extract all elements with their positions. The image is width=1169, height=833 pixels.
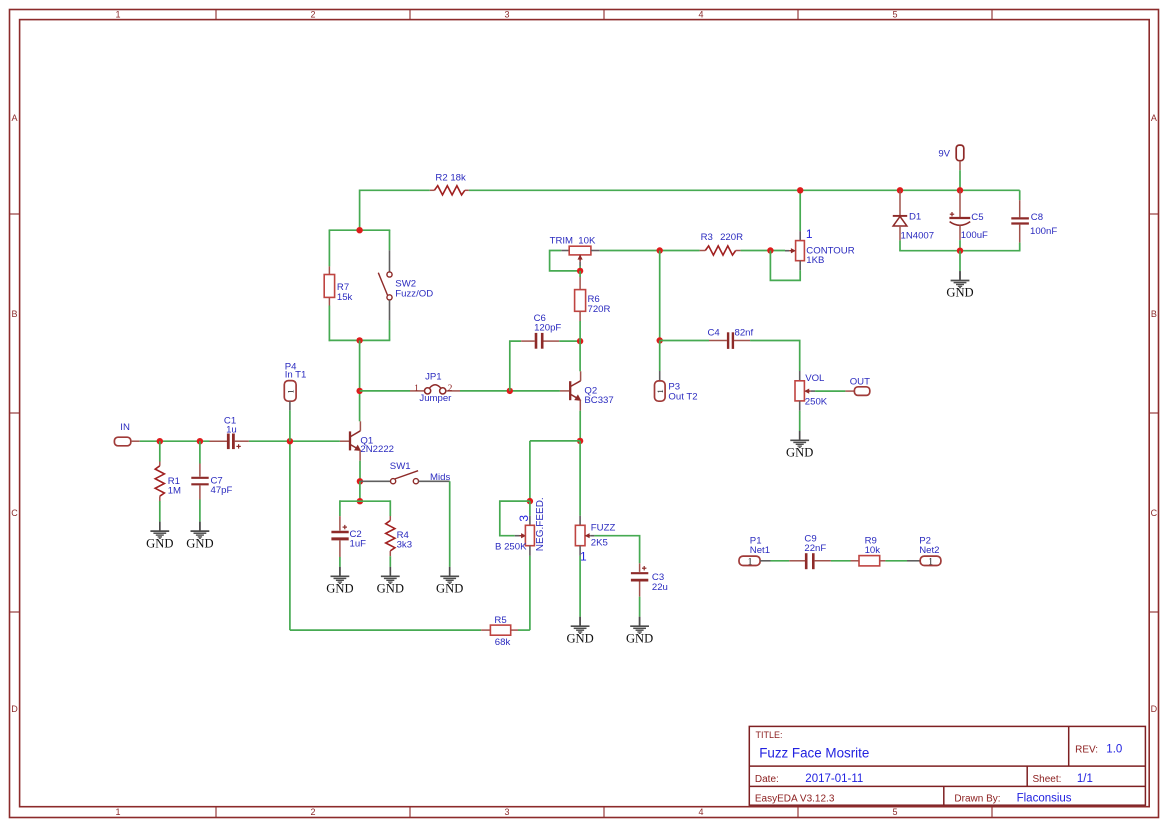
svg-text:BC337: BC337 bbox=[584, 395, 613, 406]
svg-text:120pF: 120pF bbox=[534, 322, 561, 333]
wire bbox=[579, 321, 581, 341]
wire bbox=[529, 556, 531, 630]
svg-text:D: D bbox=[1151, 704, 1158, 714]
svg-text:In T1: In T1 bbox=[285, 369, 307, 380]
svg-text:1: 1 bbox=[115, 10, 120, 20]
svg-text:Fuzz Face Mosrite: Fuzz Face Mosrite bbox=[759, 746, 869, 761]
svg-text:5: 5 bbox=[892, 10, 897, 20]
diode D1 1N4007 bbox=[893, 190, 934, 241]
wire bbox=[510, 390, 560, 392]
resistor R9 bbox=[851, 535, 886, 566]
svg-text:GND: GND bbox=[566, 631, 593, 645]
svg-text:TITLE:: TITLE: bbox=[756, 730, 783, 740]
wire bbox=[290, 629, 481, 631]
svg-text:GND: GND bbox=[186, 536, 213, 550]
svg-text:3: 3 bbox=[517, 515, 531, 522]
svg-text:720R: 720R bbox=[588, 304, 611, 315]
junction bbox=[577, 338, 583, 344]
junction bbox=[767, 247, 773, 253]
wire bbox=[660, 250, 700, 252]
wire bbox=[329, 229, 391, 231]
wire bbox=[289, 410, 291, 441]
svg-text:R5: R5 bbox=[494, 615, 506, 626]
svg-text:Sheet:: Sheet: bbox=[1033, 774, 1062, 785]
junction bbox=[577, 438, 583, 444]
svg-text:R2 18k: R2 18k bbox=[435, 172, 466, 183]
svg-text:3k3: 3k3 bbox=[397, 540, 412, 551]
svg-text:2K5: 2K5 bbox=[591, 538, 608, 549]
svg-text:22nF: 22nF bbox=[804, 543, 826, 554]
svg-text:GND: GND bbox=[377, 582, 404, 596]
junction bbox=[197, 438, 203, 444]
wire bbox=[579, 411, 581, 441]
wire bbox=[530, 440, 580, 442]
resistor R4 bbox=[386, 500, 412, 556]
junction bbox=[577, 268, 583, 274]
svg-text:REV:: REV: bbox=[1075, 745, 1098, 756]
svg-text:GND: GND bbox=[146, 536, 173, 550]
resistor R1 bbox=[155, 441, 181, 501]
wire bbox=[328, 230, 330, 266]
wire bbox=[449, 481, 451, 567]
svg-text:10K: 10K bbox=[578, 236, 596, 247]
svg-text:Net2: Net2 bbox=[919, 545, 939, 556]
title block bbox=[749, 726, 1145, 805]
svg-text:B 250K: B 250K bbox=[495, 541, 527, 552]
wire bbox=[550, 251, 581, 271]
svg-text:1: 1 bbox=[928, 557, 933, 567]
svg-text:2: 2 bbox=[310, 807, 315, 817]
svg-text:A: A bbox=[1151, 113, 1157, 123]
capacitor C3 bbox=[631, 563, 668, 596]
junction bbox=[157, 438, 163, 444]
capacitor C5 bbox=[949, 190, 988, 241]
svg-text:C4: C4 bbox=[708, 327, 721, 338]
svg-text:220R: 220R bbox=[720, 232, 743, 243]
svg-text:22u: 22u bbox=[652, 582, 668, 593]
wire bbox=[518, 629, 530, 631]
switch SW1 Mids bbox=[360, 461, 451, 484]
svg-text:C: C bbox=[1151, 508, 1158, 518]
wire bbox=[359, 391, 361, 421]
junction bbox=[507, 388, 513, 394]
junction bbox=[797, 187, 803, 193]
wire bbox=[199, 500, 201, 522]
svg-text:C8: C8 bbox=[1031, 212, 1043, 223]
svg-text:Jumper: Jumper bbox=[419, 393, 452, 404]
wire bbox=[579, 271, 581, 277]
junction bbox=[897, 187, 903, 193]
wire bbox=[329, 339, 391, 341]
svg-text:1: 1 bbox=[748, 557, 753, 567]
wire bbox=[359, 461, 361, 482]
svg-text:Date:: Date: bbox=[755, 774, 779, 785]
resistor R3 bbox=[700, 232, 744, 255]
wire bbox=[770, 251, 800, 281]
resistor R6 bbox=[575, 271, 611, 321]
wire bbox=[771, 560, 790, 562]
wire bbox=[750, 341, 800, 372]
ground bbox=[626, 617, 653, 646]
svg-text:1.0: 1.0 bbox=[1106, 744, 1122, 756]
wire bbox=[199, 441, 201, 463]
svg-text:9V: 9V bbox=[938, 149, 950, 160]
svg-text:GND: GND bbox=[786, 446, 813, 460]
transistor Q1 bbox=[340, 421, 394, 460]
junction bbox=[657, 337, 663, 343]
svg-text:1uF: 1uF bbox=[350, 538, 367, 549]
potentiometer CONTOUR 1KB bbox=[770, 190, 854, 280]
svg-text:250K: 250K bbox=[805, 396, 828, 407]
svg-text:SW1: SW1 bbox=[390, 461, 411, 472]
svg-text:1: 1 bbox=[806, 227, 813, 241]
capacitor C2 bbox=[331, 500, 366, 557]
svg-text:10k: 10k bbox=[865, 545, 881, 556]
svg-text:C: C bbox=[11, 508, 18, 518]
wire bbox=[659, 251, 661, 341]
svg-text:1u: 1u bbox=[226, 424, 237, 435]
junction bbox=[287, 438, 293, 444]
svg-text:4: 4 bbox=[698, 807, 703, 817]
port P2 Net2 bbox=[907, 535, 941, 567]
svg-text:3: 3 bbox=[504, 807, 509, 817]
junction bbox=[356, 227, 362, 233]
wire bbox=[579, 341, 581, 371]
potentiometer FUZZ 2K5 bbox=[575, 516, 615, 564]
svg-text:Fuzz/OD: Fuzz/OD bbox=[395, 289, 433, 300]
wire bbox=[799, 411, 801, 431]
wire bbox=[510, 341, 521, 391]
wire bbox=[579, 441, 581, 516]
svg-text:100nF: 100nF bbox=[1030, 226, 1057, 237]
svg-text:GND: GND bbox=[436, 582, 463, 596]
svg-text:4: 4 bbox=[698, 10, 703, 20]
wire bbox=[389, 500, 391, 516]
junction bbox=[356, 337, 362, 343]
wire bbox=[460, 390, 510, 392]
svg-text:1N4007: 1N4007 bbox=[901, 231, 935, 242]
svg-text:B: B bbox=[1151, 309, 1157, 319]
port P4 In T1 bbox=[284, 361, 306, 410]
svg-text:D: D bbox=[11, 704, 18, 714]
capacitor C6 bbox=[521, 313, 561, 349]
wire bbox=[340, 500, 390, 502]
capacitor C7 bbox=[191, 441, 232, 499]
ground bbox=[377, 567, 404, 596]
svg-text:2017-01-11: 2017-01-11 bbox=[805, 773, 863, 785]
wire bbox=[959, 251, 961, 271]
svg-text:GND: GND bbox=[626, 631, 653, 645]
svg-text:Out T2: Out T2 bbox=[668, 391, 697, 402]
wire bbox=[159, 501, 161, 522]
junction bbox=[957, 187, 963, 193]
wire bbox=[1019, 190, 1021, 200]
wire bbox=[959, 170, 961, 190]
wire bbox=[328, 306, 330, 342]
svg-text:Mids: Mids bbox=[430, 472, 450, 483]
svg-text:5: 5 bbox=[892, 807, 897, 817]
junction bbox=[356, 388, 362, 394]
wire bbox=[359, 340, 361, 391]
wire bbox=[885, 560, 907, 562]
capacitor C9 bbox=[789, 533, 831, 569]
svg-text:100uF: 100uF bbox=[961, 230, 988, 241]
svg-text:D1: D1 bbox=[909, 211, 921, 222]
wire bbox=[600, 250, 660, 252]
wire bbox=[360, 390, 410, 392]
wire bbox=[339, 557, 341, 567]
ground bbox=[436, 567, 463, 596]
svg-text:R3: R3 bbox=[701, 232, 713, 243]
wire bbox=[594, 536, 639, 564]
potentiometer TRIM 10K bbox=[550, 236, 600, 266]
resistor R7 bbox=[324, 266, 352, 305]
ground bbox=[186, 522, 213, 551]
svg-text:VOL: VOL bbox=[805, 373, 825, 384]
wire bbox=[741, 250, 785, 252]
wire bbox=[579, 266, 581, 271]
wire bbox=[469, 189, 1020, 191]
resistor R5 bbox=[481, 615, 518, 648]
junction bbox=[957, 248, 963, 254]
wire bbox=[249, 440, 340, 442]
potentiometer B 250K NEG.FEED. bbox=[495, 497, 546, 556]
svg-text:TRIM: TRIM bbox=[550, 236, 573, 247]
capacitor C8 bbox=[1011, 190, 1057, 242]
svg-text:FUZZ: FUZZ bbox=[591, 522, 616, 533]
svg-text:47pF: 47pF bbox=[211, 485, 233, 496]
wire bbox=[799, 190, 801, 231]
svg-text:OUT: OUT bbox=[850, 376, 870, 387]
junction bbox=[657, 247, 663, 253]
wire bbox=[140, 440, 210, 442]
svg-text:2N2222: 2N2222 bbox=[360, 444, 394, 455]
wire bbox=[500, 501, 530, 536]
jumper JP1 bbox=[410, 371, 460, 404]
ground bbox=[786, 431, 813, 460]
ground bbox=[566, 617, 593, 646]
potentiometer VOL 250K bbox=[795, 371, 828, 411]
svg-text:1: 1 bbox=[414, 384, 419, 394]
svg-text:GND: GND bbox=[326, 582, 353, 596]
power 9V bbox=[938, 145, 963, 170]
svg-text:Drawn By:: Drawn By: bbox=[954, 794, 1000, 805]
ground bbox=[326, 567, 353, 596]
port P3 Out T2 bbox=[655, 371, 698, 402]
port OUT bbox=[845, 376, 870, 395]
wire bbox=[529, 501, 531, 516]
svg-text:2: 2 bbox=[448, 384, 453, 394]
wire bbox=[815, 390, 845, 392]
svg-text:15k: 15k bbox=[337, 292, 353, 303]
port IN bbox=[114, 422, 139, 446]
transistor Q2 bbox=[560, 371, 614, 410]
svg-text:EasyEDA V3.12.3: EasyEDA V3.12.3 bbox=[755, 794, 835, 805]
svg-text:1: 1 bbox=[580, 550, 587, 564]
wire bbox=[159, 441, 161, 461]
svg-text:68k: 68k bbox=[495, 637, 511, 648]
svg-text:B: B bbox=[11, 309, 17, 319]
ground bbox=[946, 271, 973, 300]
ground bbox=[146, 522, 173, 551]
svg-text:82nf: 82nf bbox=[735, 327, 754, 338]
svg-text:3: 3 bbox=[504, 10, 509, 20]
wire bbox=[359, 481, 361, 501]
capacitor C1 bbox=[210, 415, 249, 449]
svg-text:NEG.FEED.: NEG.FEED. bbox=[535, 497, 546, 551]
svg-text:C5: C5 bbox=[971, 212, 983, 223]
wire bbox=[529, 441, 531, 501]
svg-text:1/1: 1/1 bbox=[1077, 773, 1093, 785]
wire bbox=[579, 556, 581, 617]
junction bbox=[357, 478, 363, 484]
svg-text:1: 1 bbox=[115, 807, 120, 817]
svg-text:Net1: Net1 bbox=[750, 545, 770, 556]
svg-text:1KB: 1KB bbox=[806, 255, 824, 266]
svg-text:Flaconsius: Flaconsius bbox=[1017, 793, 1072, 805]
wire bbox=[831, 560, 851, 562]
wire bbox=[559, 340, 580, 342]
wire bbox=[389, 230, 391, 250]
wire bbox=[389, 556, 391, 567]
wire bbox=[389, 320, 391, 340]
junction bbox=[357, 498, 363, 504]
wire bbox=[639, 597, 641, 617]
wire bbox=[899, 250, 1020, 252]
svg-text:GND: GND bbox=[946, 286, 973, 300]
wire bbox=[359, 190, 361, 231]
wire bbox=[289, 441, 291, 630]
junction bbox=[527, 498, 533, 504]
wire bbox=[1019, 243, 1021, 251]
svg-text:1M: 1M bbox=[168, 485, 181, 496]
svg-text:1: 1 bbox=[285, 389, 295, 393]
svg-text:2: 2 bbox=[310, 10, 315, 20]
svg-text:JP1: JP1 bbox=[425, 371, 442, 382]
wire bbox=[899, 240, 901, 250]
svg-text:1: 1 bbox=[655, 389, 665, 393]
resistor R2 bbox=[430, 172, 469, 195]
wire bbox=[339, 500, 341, 516]
wire bbox=[959, 240, 961, 251]
wire bbox=[360, 189, 430, 191]
svg-text:A: A bbox=[11, 113, 17, 123]
switch SW2 Fuzz/OD bbox=[378, 250, 433, 320]
wire bbox=[660, 340, 709, 342]
svg-text:IN: IN bbox=[120, 422, 130, 433]
port P1 Net1 bbox=[739, 535, 771, 567]
capacitor C4 bbox=[708, 327, 754, 349]
wire bbox=[659, 341, 661, 372]
